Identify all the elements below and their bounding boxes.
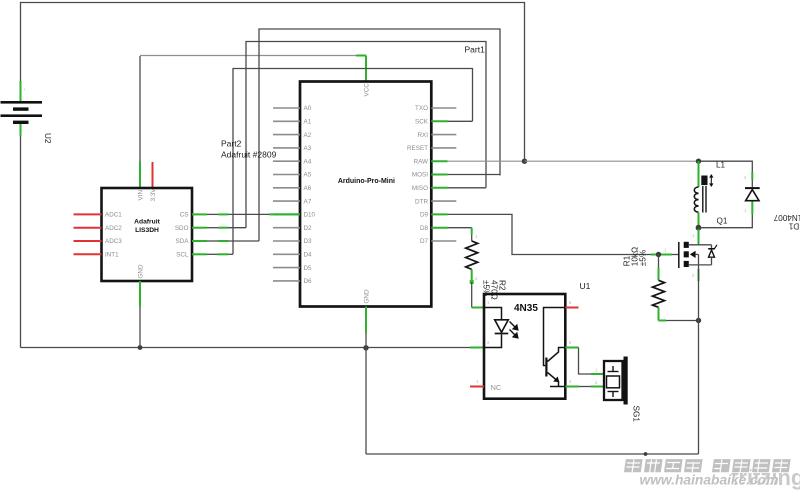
svg-text:ADC2: ADC2: [105, 225, 122, 232]
svg-text:A3: A3: [304, 145, 312, 152]
svg-text:A1: A1: [304, 119, 312, 126]
pin SCK green stub: [431, 120, 447, 122]
node junction Q1 gate / R1: [656, 252, 661, 257]
wire battery- down to ground rail: [20, 136, 22, 348]
wire drain junction to D1 bottom: [699, 215, 753, 228]
pin 4N35 pin6 red stub: [565, 307, 578, 309]
LED emission arrows: [510, 322, 518, 338]
node junction LIS3DH GND on ground rail: [138, 345, 143, 350]
svg-text:Part2: Part2: [221, 139, 242, 149]
wire R1 top lead: [658, 255, 660, 268]
pin RESET stub: [431, 147, 456, 149]
wire RAW junction to L1 top (gray): [525, 160, 699, 162]
svg-text:RAW: RAW: [414, 158, 429, 165]
wire CS to D10: [192, 213, 300, 215]
svg-text:U1: U1: [580, 281, 591, 291]
svg-text:D10: D10: [304, 212, 316, 219]
svg-text:RXI: RXI: [418, 132, 429, 139]
svg-text:Part1: Part1: [465, 45, 486, 55]
wire RAW to battery junction (gray): [448, 160, 525, 162]
pin TXO stub: [431, 107, 456, 109]
svg-text:A4: A4: [304, 158, 312, 165]
wire 3.3V red stub: [152, 162, 154, 188]
node junction on bottom rail: [644, 452, 648, 456]
svg-text:D8: D8: [420, 225, 429, 232]
wire R2 bottom green stub: [471, 269, 473, 282]
wire SCL stub to rail E riser: [192, 253, 233, 255]
wire ground rail green end at 4N35 pin2: [470, 347, 484, 349]
pin A0 stub: [273, 107, 300, 109]
wire 4N35 pin1 green stub: [472, 307, 484, 309]
pin RAW green stub: [431, 160, 447, 162]
pin 4N35 pin5 green stub: [565, 347, 578, 349]
svg-text:A6: A6: [304, 185, 312, 192]
svg-text:±5%: ±5%: [639, 250, 648, 266]
pin A1 stub: [273, 120, 300, 122]
svg-text:Adafruit #2809: Adafruit #2809: [221, 150, 277, 160]
resistor R2 zigzag: [466, 241, 478, 269]
node junction L1 bottom / Q1 drain / D1: [696, 225, 702, 231]
watermark CJK line (blocks): [624, 459, 791, 473]
wire pin5 to speaker pin1: [579, 348, 592, 375]
wire MOSI to rail B riser: [448, 174, 501, 176]
svg-text:A5: A5: [304, 172, 312, 179]
wire pin4 to speaker pin2: [579, 386, 591, 388]
svg-text:D3: D3: [304, 238, 313, 245]
wire SDA stub to rail B riser: [192, 240, 259, 242]
node junction Q1 source / R1 / ground riser: [696, 318, 701, 323]
wire R1 top green stub: [658, 268, 660, 281]
pin ADC3 red stub: [74, 240, 102, 242]
wire MISO to rail C riser: [448, 187, 487, 189]
pin MISO green stub: [431, 187, 447, 189]
inductor L1: [694, 161, 713, 228]
pin D3 stub: [273, 240, 300, 242]
wire SDO stub to rail C riser: [192, 227, 246, 229]
wire LIS3DH GND down to rail: [139, 307, 141, 348]
node junction L1 top: [696, 159, 701, 164]
svg-text:RESET: RESET: [407, 145, 428, 152]
wire Arduino GND to bottom rail: [365, 333, 367, 454]
svg-text:Adafruit: Adafruit: [134, 219, 160, 226]
node R2 wire end green dot: [470, 280, 474, 284]
wire L1 top to D1 top: [699, 161, 753, 172]
svg-text:Arduino-Pro-Mini: Arduino-Pro-Mini: [338, 178, 395, 185]
wire VCC green drop: [365, 56, 367, 82]
pin A6 stub: [273, 187, 300, 189]
svg-text:1N4007: 1N4007: [773, 213, 800, 222]
LED inside 4N35: [485, 308, 508, 348]
svg-text:GND: GND: [137, 264, 144, 278]
svg-text:CS: CS: [180, 212, 189, 219]
phototransistor inside 4N35: [544, 308, 565, 387]
svg-text:NC: NC: [491, 383, 502, 392]
pin A5 stub: [273, 174, 300, 176]
wire VIN riser dark: [139, 56, 141, 162]
pin A2 stub: [273, 134, 300, 136]
wire R2 top lead: [471, 235, 473, 242]
svg-text:L1: L1: [716, 161, 726, 170]
wire LIS3DH GND green stub: [139, 281, 141, 307]
svg-text:GND: GND: [363, 289, 370, 303]
diode D1 1N4007: [744, 172, 760, 215]
wire speaker pin2 green stub: [591, 386, 604, 388]
svg-text:SDO: SDO: [175, 225, 189, 232]
pin D7 stub: [431, 240, 456, 242]
optocoupler U1 4N35 box: [484, 294, 565, 399]
wire D9 green marker at gate junction: [651, 254, 659, 256]
svg-text:INT1: INT1: [105, 252, 119, 259]
accelerometer U? Adafruit LIS3DH box: [102, 188, 193, 281]
svg-text:D2: D2: [304, 225, 313, 232]
svg-text:D5: D5: [304, 265, 313, 272]
wire battery top green stub: [20, 81, 22, 101]
pin A7 stub: [273, 200, 300, 202]
svg-text:4N35: 4N35: [514, 303, 538, 314]
svg-text:VCC: VCC: [363, 83, 370, 97]
svg-text:TXO: TXO: [415, 105, 428, 112]
svg-text:www.hainabaike.com: www.hainabaike.com: [639, 473, 778, 488]
wire green marker on rail D near VCC corner: [356, 55, 366, 57]
pin A3 stub: [273, 147, 300, 149]
svg-text:A2: A2: [304, 132, 312, 139]
wire R1 bottom to source junction: [659, 320, 699, 322]
pin ADC1 red stub: [74, 213, 102, 215]
wire D8 corner green drop to R2 pin1: [471, 228, 473, 235]
wire R1 bottom green stub: [658, 307, 660, 320]
svg-text:MISO: MISO: [412, 185, 428, 192]
pin DTR stub: [431, 200, 456, 202]
transistor Q1 n-mosfet: [679, 229, 717, 321]
svg-text:MOSI: MOSI: [412, 172, 428, 179]
svg-text:D6: D6: [304, 278, 313, 285]
svg-text:SG1: SG1: [632, 406, 641, 423]
wire top rail battery+ to RAW: [21, 3, 525, 162]
wire SCK to rail E: [448, 120, 473, 122]
pin D5 stub: [273, 267, 300, 269]
svg-text:D9: D9: [420, 212, 429, 219]
wire D9 to Q1 gate: [448, 214, 652, 254]
svg-text:U2: U2: [43, 133, 52, 144]
svg-text:ADC3: ADC3: [105, 238, 122, 245]
pin D10 green stub: [273, 213, 300, 215]
pin A4 stub: [273, 160, 300, 162]
pin ADC2 red stub: [74, 227, 102, 229]
svg-text:Q1: Q1: [717, 217, 728, 226]
svg-text:ADC1: ADC1: [105, 212, 122, 219]
battery U2: [1, 101, 43, 124]
node junction Arduino GND on ground rail: [363, 345, 368, 350]
svg-text:DTR: DTR: [415, 198, 428, 205]
pin INT1 red stub: [74, 253, 102, 255]
svg-text:SCK: SCK: [415, 119, 429, 126]
svg-text:A0: A0: [304, 105, 312, 112]
wire Arduino GND green stub: [365, 307, 367, 334]
microcontroller Arduino-Pro-Mini box: [300, 82, 431, 307]
svg-text:D4: D4: [304, 252, 313, 259]
wire ground rail to 4N35 cathode: [21, 347, 471, 349]
rail B SDA to MOSI: [259, 29, 500, 241]
pin MOSI green stub: [431, 174, 447, 176]
svg-text:SCL: SCL: [176, 252, 189, 259]
pin D6 stub: [273, 280, 300, 282]
resistor R1 zigzag: [653, 280, 665, 307]
pin D4 stub: [273, 253, 300, 255]
wire source junction down to bottom rail: [698, 321, 700, 455]
speaker SG1: [604, 357, 628, 405]
wire R1 corner green marker: [658, 316, 660, 321]
wire gate junction green to gate: [661, 254, 672, 256]
svg-text:VIN: VIN: [137, 190, 144, 201]
wire VIN green stub: [139, 162, 141, 188]
svg-text:D7: D7: [420, 238, 429, 245]
rail C SDO to MISO: [246, 42, 486, 228]
pin D8 green stub: [431, 227, 447, 229]
wire R2 to 4N35 anode: [471, 282, 473, 308]
wire speaker pin1 green stub: [591, 373, 604, 375]
wire bottom ground rail: [366, 453, 699, 455]
rail D VIN to VCC (gray): [140, 55, 366, 57]
wire gate dark segment: [672, 254, 679, 256]
svg-text:A7: A7: [304, 198, 312, 205]
pin NC red stub: [470, 386, 484, 388]
svg-text:LIS3DH: LIS3DH: [135, 227, 159, 234]
wire battery bottom green stub: [20, 124, 22, 136]
pin D2 stub: [273, 227, 300, 229]
svg-text:3.3V: 3.3V: [150, 188, 157, 202]
rail E SCL to SCK: [233, 69, 473, 255]
pin 4N35 pin4 green stub: [565, 386, 579, 388]
node junction RAW/battery: [522, 159, 527, 164]
wire D8 to R2: [448, 227, 472, 229]
svg-text:SDA: SDA: [176, 238, 190, 245]
pin RXI stub: [431, 134, 456, 136]
pin D9 green stub: [431, 213, 447, 215]
